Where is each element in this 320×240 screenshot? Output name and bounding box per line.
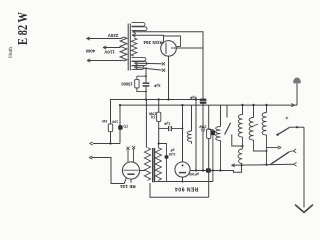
svg-text:15000: 15000 [121,82,133,87]
contact plus [286,117,289,120]
resistor R1 branch bottom [137,88,146,92]
wire grid RC [159,128,168,130]
tube V1 RE134 envelope [122,162,139,179]
heater tap 1 arrow [134,62,137,65]
junction S1 [241,145,243,147]
svg-text:0,25: 0,25 [169,152,176,156]
mains terminal 220V wire [87,38,121,40]
wire heater tap 1 [136,62,162,64]
wire U1 bottom to bus [168,56,170,99]
wire coil A lead [191,105,193,131]
junction C1 bus [145,98,147,100]
wire V1 anode [140,170,145,172]
junction heater tap [145,67,147,69]
wire HT drop [145,68,147,83]
resistor R4 box [207,129,211,138]
junction V2 bus2 [181,104,183,106]
wire heater tap 2 [136,67,162,70]
tube V1 grid [123,169,138,171]
svg-text:100: 100 [112,119,118,123]
wire R3 to junction [158,122,160,144]
wire v196 [195,100,197,171]
transformer T2 left winding [144,148,150,181]
terminal X4 [132,146,135,149]
mains terminal bottom arrow [87,59,90,62]
svg-text:REN 904: REN 904 [175,185,199,191]
switch S1 arm [225,123,231,135]
tube U1 top bracket [164,36,181,46]
wire L4 down [266,135,268,165]
terminal X3 [126,147,129,150]
wire L2 tail [241,164,244,166]
wire arrow branch [267,147,279,149]
terminal X1 [162,62,165,65]
resistor R1 box [135,79,139,88]
resistor R2 box [108,124,112,132]
transformer T1 secondary top loops [132,23,145,27]
wire S1 down [232,135,243,147]
tube V1 bottom stub [130,179,132,183]
capacitor C5 blob [165,155,169,159]
contact right 1 [294,163,297,167]
mains terminal bottom wire [87,59,124,61]
wire V2 anode [190,165,241,172]
wire S1 feed [226,105,228,118]
transformer T1 secondary bottom loops [132,57,146,61]
wire pickup 2 [92,158,127,184]
tap line arrow [232,164,235,167]
wire grid h [93,143,120,145]
tube V2 REN904 envelope [175,162,190,177]
wire HT top rail [133,32,204,48]
antenna arrow [291,104,294,107]
capacitor C1 plates [143,82,150,84]
wire L1 lead [242,105,244,115]
wire C5 branch [159,144,167,156]
switch S3 arm [270,152,289,165]
coil L4 [262,113,266,136]
junction L3 bus [252,104,254,106]
svg-text:µF100: µF100 [189,172,199,176]
svg-text:1µF: 1µF [163,121,170,125]
mains terminal 110V arrow [103,46,106,49]
wire coil B down [220,141,222,171]
junction T2 top [158,142,160,144]
tube V1 cathode [127,173,134,175]
wire bottom rail [150,183,209,197]
junction L4 tap [265,164,267,166]
wire L4 lead [266,105,268,113]
wire rectifier output vertical [202,48,204,99]
wire C7 down [212,135,214,181]
svg-text:(1): (1) [123,124,127,128]
coil A [187,131,191,142]
antenna symbol [293,78,301,83]
wire tap line [232,164,294,165]
transformer T1 core [127,24,129,71]
svg-text:40W: 40W [85,49,95,54]
tube V2 bottom stub [182,177,184,181]
capacitor C4 plates [168,126,170,131]
switch S2 pivot [276,134,278,136]
wire V2 grid lead [182,105,184,162]
mains terminal 220V arrow [87,37,90,40]
svg-text:110V: 110V [103,49,114,54]
tube V2 cathode [179,172,186,174]
junction W1 d [219,169,221,171]
coil B [216,127,221,141]
wire L3 lead [253,105,255,118]
capacitor C6 blob [206,168,211,173]
wire bus 2 [120,105,297,143]
wire bus B+ [111,100,207,144]
transformer T1 secondary middle winding [131,38,137,56]
wire earth vertical [303,127,305,207]
switch S2 arm [278,127,290,134]
anode tap arrow [132,34,135,37]
capacitor C2 4uF [200,99,207,104]
svg-text:1µF: 1µF [153,83,161,88]
svg-text:220V: 220V [107,33,119,38]
junction U1 bus [167,98,169,100]
junction grid [109,142,111,144]
wire R4 down [208,138,210,197]
svg-text:µF: µF [170,148,174,152]
tube U1 filament [165,43,167,54]
junction R3 bus [158,98,160,100]
wire below C1 [145,86,147,99]
junction grid v2 [182,128,184,130]
coil L3 [249,118,253,141]
junction W1 c [212,169,214,171]
switch S3 thin [289,151,293,152]
junction W1 a [195,169,197,171]
junction v196 bus [195,98,197,100]
wire grid RC right [172,128,183,130]
wire cathode line [156,181,213,183]
wire L3 bottom path [254,140,267,151]
junction L4 bus [265,104,267,106]
svg-text:(1): (1) [151,115,155,119]
capacitor C7 blob [211,130,215,135]
wire v203 [202,103,204,171]
junction V2 stub [182,181,184,183]
terminal pickup 2 arrow [89,156,92,159]
junction L1 bus [241,104,243,106]
wire primary top [121,38,124,39]
tube V1 heater stubs [127,150,129,163]
wire R4 lead [208,105,210,129]
heater tap 2 arrow [134,66,137,69]
L3 tick [254,124,259,126]
coil L1 [238,115,242,138]
contact right 2 [293,149,296,153]
terminal X2 [162,69,165,72]
transformer T2 core [152,148,154,182]
tube U1 RGN354 envelope [161,41,177,57]
wire L1 mid [242,137,244,149]
svg-text:E 82 W: E 82 W [16,12,31,45]
wire anode tap [132,35,163,41]
HT tap arrow [133,30,136,33]
ground arrow [295,205,313,213]
wire coil B lead [220,105,222,126]
transformer T2 right winding [155,148,161,181]
junction R1 top [145,75,147,77]
junction S2 [296,126,298,128]
tube U1 anode tick [171,47,176,49]
junction R1 bottom [145,91,147,93]
svg-text:RGN 354: RGN 354 [143,40,163,45]
resistor R3 box [157,112,161,121]
wire U1 cathode to right rail [176,47,203,49]
svg-text:(1): (1) [201,128,205,132]
capacitor C3 blob [118,125,122,130]
svg-text:1W: 1W [101,119,107,123]
terminal pickup 1 arrow [90,142,93,145]
capacitor C7 stub [209,129,213,132]
wire S2 out [290,126,305,128]
svg-text:Huth: Huth [8,47,14,58]
wire C5 down [166,159,168,182]
svg-text:15W: 15W [199,124,207,128]
wire coil A tail [191,142,193,145]
wire T2 right top [157,144,159,148]
wire T2 left lead [145,100,147,148]
svg-text:RE 134: RE 134 [120,184,136,189]
wire R3 lead [158,100,160,113]
svg-text:15W: 15W [148,111,156,115]
wire antenna riser [296,83,298,105]
resistor R1 branch top [137,76,146,79]
tube V2 grid dot [182,164,184,166]
coil L2 [238,149,242,164]
junction bus2 left [119,104,121,106]
junction W1 b [202,169,204,171]
junction L2 bottom [240,164,242,166]
transformer T1 primary winding [120,37,127,61]
mains terminal 110V wire [103,47,121,49]
